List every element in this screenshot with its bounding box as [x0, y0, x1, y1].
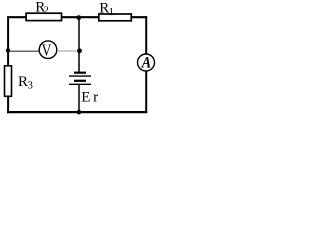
wire top-left horizontal [8, 16, 27, 18]
node junction dot on battery wire (voltmeter tap) [77, 48, 82, 53]
wire right vertical lower [145, 71, 147, 114]
svg-text:Er: Er [81, 90, 98, 106]
wire voltmeter branch left (thin) [9, 50, 40, 52]
resistor R3 [5, 66, 12, 97]
svg-text:R: R [18, 74, 28, 90]
battery cell1 long plate [69, 75, 91, 77]
wire left vertical lower [7, 97, 9, 114]
node junction dot left (voltmeter tap) [6, 48, 10, 52]
voltmeter V1 [39, 41, 57, 59]
wire left vertical upper [7, 16, 9, 65]
battery cell2 short plate [74, 80, 86, 82]
label R3 [18, 74, 33, 91]
label R2 [35, 0, 49, 17]
wire battery vertical lower [78, 85, 80, 112]
battery cell2 long plate [69, 83, 91, 85]
label R1 [99, 0, 114, 18]
wire bottom horizontal [7, 111, 147, 113]
wire top-right horizontal [131, 16, 147, 18]
battery cell1 short plate [74, 72, 86, 74]
svg-text:A: A [141, 55, 152, 72]
node junction dot bottom (battery return) [77, 110, 82, 115]
resistor R1 [99, 14, 132, 21]
svg-text:3: 3 [28, 80, 33, 91]
svg-text:1: 1 [109, 6, 115, 18]
wire voltmeter branch right (thin) [57, 50, 79, 52]
wire battery vertical upper [78, 17, 80, 73]
svg-text:V: V [42, 41, 52, 60]
wire right vertical upper [145, 16, 147, 54]
svg-text:2: 2 [44, 6, 49, 17]
node junction dot top (battery tap) [76, 15, 81, 20]
resistor R2 [26, 13, 61, 20]
wire top-middle horizontal [62, 16, 99, 18]
ammeter A1 [138, 54, 155, 71]
